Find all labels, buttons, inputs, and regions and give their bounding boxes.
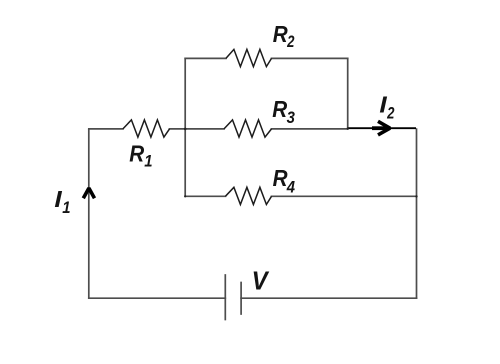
svg-text:2: 2: [386, 104, 395, 123]
svg-text:V: V: [252, 268, 270, 296]
svg-text:1: 1: [144, 153, 152, 171]
svg-text:2: 2: [286, 33, 295, 52]
svg-text:R: R: [129, 140, 144, 167]
svg-text:R: R: [272, 96, 287, 123]
svg-text:3: 3: [287, 109, 296, 127]
svg-text:R: R: [273, 21, 288, 48]
svg-text:1: 1: [62, 199, 70, 217]
svg-text:4: 4: [286, 179, 295, 197]
svg-text:R: R: [273, 165, 288, 192]
